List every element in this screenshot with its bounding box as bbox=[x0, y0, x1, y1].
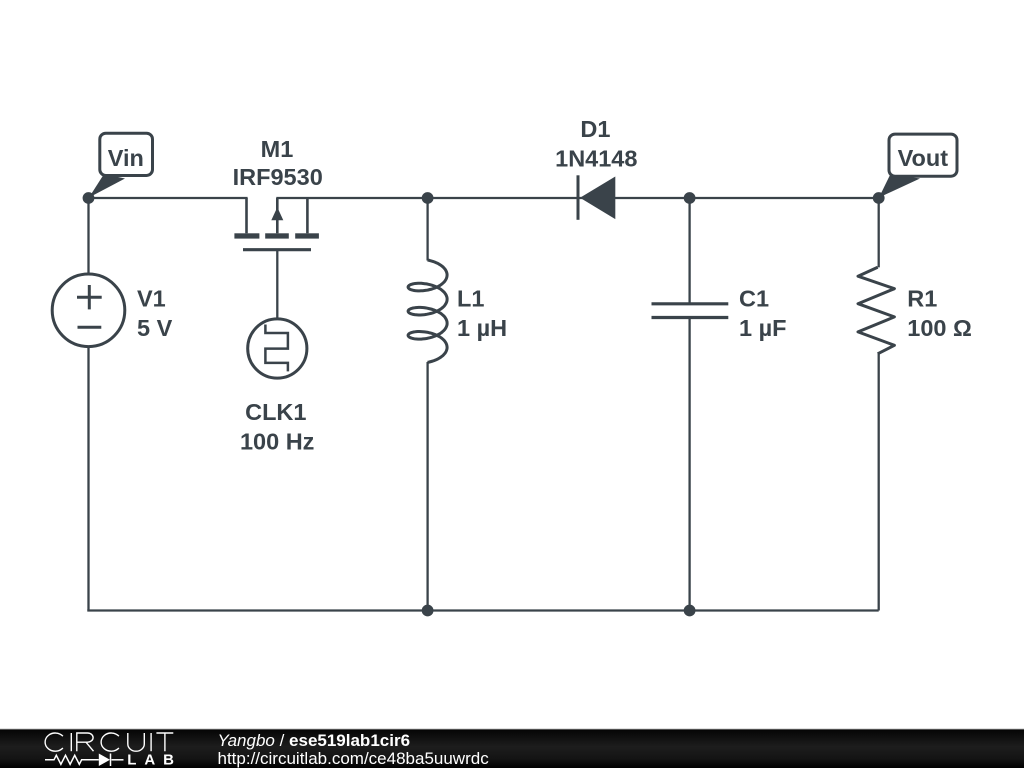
CircuitLab logo resistor-diode squiggle bbox=[45, 754, 124, 767]
wire R1 bottom lead bbox=[878, 354, 880, 611]
wire L1 top lead bbox=[426, 198, 428, 261]
svg-text:M1: M1 bbox=[261, 136, 294, 162]
diode D1 bbox=[577, 175, 580, 220]
wire left rail: Vin node down to V1 bbox=[87, 198, 89, 274]
svg-text:D1: D1 bbox=[580, 116, 610, 142]
clock source CLK1 bbox=[248, 319, 307, 378]
node Vout junction bbox=[873, 192, 885, 204]
svg-text:Vin: Vin bbox=[108, 145, 144, 171]
svg-text:LAB: LAB bbox=[127, 751, 182, 768]
svg-text:http://circuitlab.com/ce48ba5u: http://circuitlab.com/ce48ba5uuwrdc bbox=[218, 749, 490, 768]
svg-text:100 Ω: 100 Ω bbox=[907, 315, 972, 341]
node L1 bottom junction bbox=[422, 605, 434, 617]
wire C1 bottom lead bbox=[688, 318, 690, 611]
svg-text:1 µF: 1 µF bbox=[739, 315, 787, 341]
inductor L1 bbox=[408, 260, 447, 362]
svg-text:100 Hz: 100 Hz bbox=[240, 428, 314, 454]
svg-text:C1: C1 bbox=[739, 286, 769, 312]
resistor R1 bbox=[858, 267, 894, 354]
capacitor C1 bbox=[652, 304, 729, 318]
CircuitLab logo wordmark CIRCUIT bbox=[45, 733, 173, 751]
svg-text:5 V: 5 V bbox=[137, 315, 173, 341]
footer bar bbox=[0, 729, 1024, 730]
wire L1 bottom lead bbox=[426, 362, 428, 611]
svg-text:Yangbo / ese519lab1cir6: Yangbo / ese519lab1cir6 bbox=[218, 731, 411, 750]
svg-text:CLK1: CLK1 bbox=[245, 399, 306, 425]
wire R1 top lead bbox=[878, 198, 880, 267]
svg-text:R1: R1 bbox=[907, 286, 937, 312]
node C1 bottom junction bbox=[684, 605, 696, 617]
node Vin junction bbox=[83, 192, 95, 204]
svg-text:Vout: Vout bbox=[898, 145, 949, 171]
svg-text:1 µH: 1 µH bbox=[457, 315, 507, 341]
wire top right: M1 body/drain to Vout node bbox=[276, 197, 878, 199]
svg-text:1N4148: 1N4148 bbox=[555, 145, 637, 171]
wire top left: Vin node to M1 source bbox=[89, 197, 248, 199]
net flag Vin bbox=[89, 174, 125, 198]
svg-text:IRF9530: IRF9530 bbox=[233, 164, 323, 190]
net flag Vout bbox=[879, 174, 920, 198]
wire C1 top lead bbox=[688, 198, 690, 304]
svg-text:V1: V1 bbox=[137, 286, 166, 312]
node L1 top junction bbox=[422, 192, 434, 204]
svg-text:L1: L1 bbox=[457, 286, 484, 312]
wire bottom rail bbox=[87, 609, 878, 611]
node C1 top junction bbox=[684, 192, 696, 204]
transistor M1 (PMOS IRF9530) bbox=[234, 207, 319, 238]
wire M1 gate to CLK1 bbox=[276, 251, 278, 319]
voltage source V1 bbox=[52, 274, 125, 347]
wire left rail: V1 to bottom rail bbox=[87, 346, 89, 610]
